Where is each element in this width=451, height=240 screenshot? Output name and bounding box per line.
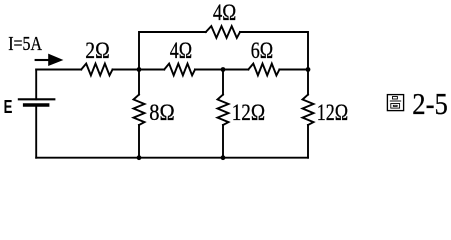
svg-text:I=5A: I=5A xyxy=(8,34,42,55)
svg-text:4Ω: 4Ω xyxy=(170,38,192,63)
svg-text:12Ω: 12Ω xyxy=(232,100,265,125)
svg-text:12Ω: 12Ω xyxy=(317,100,348,125)
svg-text:4Ω: 4Ω xyxy=(213,0,236,25)
svg-text:2Ω: 2Ω xyxy=(85,38,109,63)
svg-text:2-5: 2-5 xyxy=(412,87,448,121)
svg-text:8Ω: 8Ω xyxy=(149,100,174,125)
svg-text:E: E xyxy=(4,96,13,117)
svg-text:6Ω: 6Ω xyxy=(251,38,273,63)
